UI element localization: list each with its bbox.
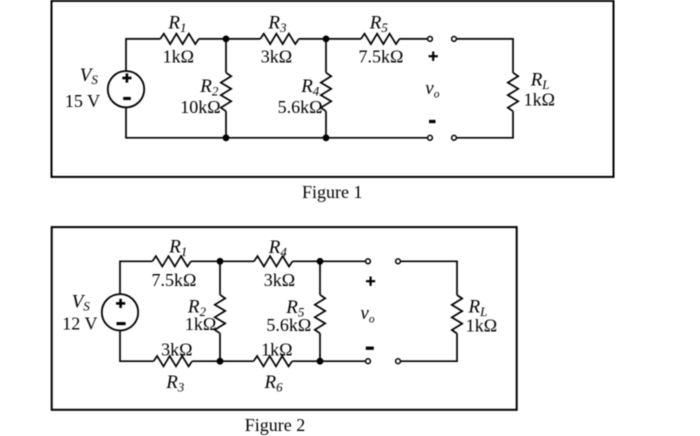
svg-text:R4: R4 — [268, 237, 288, 259]
Figure 2 border frame — [52, 227, 517, 410]
resistor RL (fig 1) — [508, 73, 518, 112]
terminal c (bottom left port) — [428, 135, 433, 140]
svg-text:3kΩ: 3kΩ — [264, 270, 295, 290]
resistor R4 (with leads) — [321, 39, 331, 138]
wire: node A to R3 — [226, 38, 260, 40]
svg-text:1kΩ: 1kΩ — [163, 46, 194, 66]
wire: R6 to node H — [292, 360, 320, 362]
wire: node F to terminal e — [320, 260, 365, 262]
wire: node G to R6 — [220, 360, 254, 362]
svg-text:12 V: 12 V — [62, 314, 97, 334]
wire: bottom rail (VS bottom to terminal c) — [126, 107, 427, 137]
label + (port polarity, fig 2) — [366, 277, 375, 286]
wire: VS top to R1 (fig 2) — [120, 261, 152, 294]
wire: node E to R4 — [220, 260, 254, 262]
node D (R4 bottom) — [323, 134, 330, 141]
resistor R3 (fig 2, in bottom rail) — [154, 356, 193, 366]
svg-text:vo: vo — [425, 78, 439, 100]
node C (R2 bottom) — [223, 134, 230, 141]
terminal e (top left port, fig 2) — [366, 259, 371, 264]
voltage source VS (15 V) — [108, 71, 144, 107]
wire: R3 to node B — [299, 38, 326, 40]
wire: node B to R5 — [326, 38, 361, 40]
resistor R1 — [160, 34, 199, 44]
wire: terminal f to RL (fig 2 top) — [401, 261, 457, 295]
svg-text:7.5kΩ: 7.5kΩ — [359, 46, 404, 66]
terminal d (bottom right port) — [452, 135, 457, 140]
voltage source VS (12 V) — [102, 294, 138, 330]
resistor R1 (fig 2) — [152, 256, 191, 266]
svg-text:R5: R5 — [369, 12, 389, 35]
svg-text:1kΩ: 1kΩ — [261, 340, 292, 360]
wire: R3 to node G — [192, 360, 220, 362]
node A — [223, 36, 230, 43]
resistor R4 (fig 2) — [254, 256, 293, 266]
wire: terminal b to RL (top) — [457, 39, 513, 73]
node F — [317, 258, 324, 265]
wire: R5 to terminal a — [400, 38, 428, 40]
svg-text:R3: R3 — [267, 12, 287, 35]
label - (port polarity, fig 1) — [429, 120, 436, 123]
svg-text:3kΩ: 3kΩ — [261, 46, 292, 66]
label - (port polarity, fig 2) — [366, 347, 374, 350]
svg-text:R6: R6 — [264, 372, 284, 395]
svg-text:3kΩ: 3kΩ — [161, 340, 192, 360]
svg-text:1kΩ: 1kΩ — [185, 314, 216, 334]
terminal h (bottom right port, fig 2) — [396, 359, 401, 364]
svg-text:VS: VS — [80, 65, 99, 87]
resistor R2 (with leads) — [221, 39, 231, 138]
svg-text:R2: R2 — [199, 76, 219, 99]
resistor R2 (fig 2, with leads) — [215, 261, 225, 361]
wire: R4 to node F — [293, 260, 321, 262]
svg-text:R3: R3 — [165, 372, 185, 395]
svg-text:7.5kΩ: 7.5kΩ — [152, 270, 197, 290]
resistor RL (fig 2) — [452, 295, 462, 334]
svg-text:R4: R4 — [300, 76, 320, 99]
resistor R5 (fig 2, with leads) — [315, 261, 325, 361]
terminal b (top right port) — [452, 37, 457, 42]
wire: VS bottom to R3 — [120, 330, 154, 361]
terminal a (top left port) — [428, 37, 433, 42]
wire: RL to terminal h (fig 2 bottom) — [401, 334, 457, 362]
node E — [217, 258, 224, 265]
svg-text:5.6kΩ: 5.6kΩ — [266, 315, 311, 335]
svg-text:5.6kΩ: 5.6kΩ — [278, 97, 323, 117]
Figure 1 border frame — [52, 1, 614, 177]
node H — [317, 358, 324, 365]
wire: R1 to node E — [191, 260, 220, 262]
node G — [217, 358, 224, 365]
wire: node H to terminal g — [320, 360, 365, 362]
terminal g (bottom left port, fig 2) — [366, 359, 371, 364]
node B — [323, 36, 330, 43]
svg-text:vo: vo — [360, 303, 374, 325]
resistor R5 — [361, 34, 400, 44]
svg-text:15 V: 15 V — [65, 91, 100, 111]
resistor R6 (fig 2, in bottom rail) — [254, 356, 293, 366]
wire: VS top to R1 (top-left corner) — [126, 39, 160, 71]
resistor R3 — [260, 34, 299, 44]
svg-text:1kΩ: 1kΩ — [524, 89, 555, 109]
terminal f (top right port, fig 2) — [396, 259, 401, 264]
svg-text:VS: VS — [72, 291, 91, 313]
wire: R1 to node A — [199, 38, 226, 40]
svg-text:1kΩ: 1kΩ — [466, 316, 497, 336]
wire: RL to terminal d (bottom) — [457, 111, 513, 138]
svg-text:R1: R1 — [168, 236, 187, 259]
svg-text:R1: R1 — [167, 12, 186, 35]
label + (port polarity, fig 1) — [429, 52, 438, 61]
svg-text:Figure 2: Figure 2 — [245, 415, 306, 435]
svg-text:Figure 1: Figure 1 — [302, 182, 363, 202]
svg-text:10kΩ: 10kΩ — [180, 97, 220, 117]
